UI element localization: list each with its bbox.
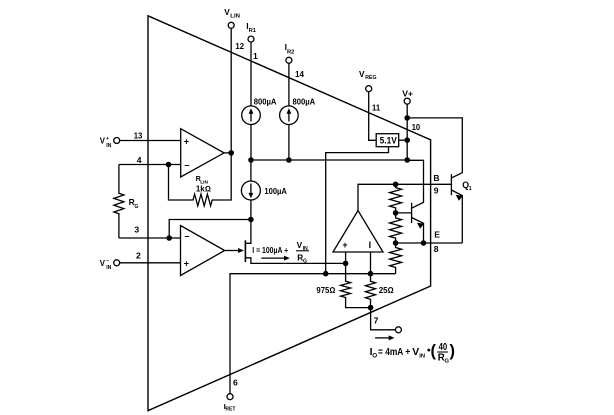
svg-text:8: 8 xyxy=(434,244,439,254)
svg-text:1: 1 xyxy=(253,51,258,61)
svg-text:2: 2 xyxy=(136,250,141,260)
svg-text:I = 100µA +: I = 100µA + xyxy=(252,245,288,255)
svg-text:(: ( xyxy=(431,342,437,360)
svg-text:+: + xyxy=(184,258,189,268)
svg-text:3: 3 xyxy=(134,225,139,235)
svg-text:7: 7 xyxy=(374,315,379,325)
svg-text:V+: V+ xyxy=(402,88,413,98)
svg-text:V: V xyxy=(100,259,106,268)
svg-text:I: I xyxy=(369,240,372,250)
svg-text:IR1: IR1 xyxy=(246,21,256,34)
svg-text:10: 10 xyxy=(412,122,421,132)
svg-text:G: G xyxy=(445,359,450,365)
svg-text:1: 1 xyxy=(469,186,472,192)
svg-text:800µA: 800µA xyxy=(293,97,316,107)
svg-text:5.1V: 5.1V xyxy=(380,136,397,146)
svg-text:= 4mA +: = 4mA + xyxy=(378,347,410,358)
svg-text:+: + xyxy=(184,136,189,146)
svg-text:1kΩ: 1kΩ xyxy=(196,184,211,193)
svg-text:V: V xyxy=(412,347,419,358)
svg-text:100µA: 100µA xyxy=(264,186,287,196)
svg-text:V: V xyxy=(359,70,365,79)
svg-text:9: 9 xyxy=(434,186,439,196)
svg-text:G: G xyxy=(303,259,307,265)
svg-text:4: 4 xyxy=(137,155,142,165)
svg-text:800µA: 800µA xyxy=(254,97,277,107)
svg-text:6: 6 xyxy=(233,378,238,388)
svg-text:+: + xyxy=(342,240,347,250)
svg-text:REG: REG xyxy=(365,75,376,81)
svg-text:40: 40 xyxy=(439,342,448,353)
svg-text:−: − xyxy=(106,258,109,264)
svg-text:IN: IN xyxy=(106,143,111,149)
svg-text:IN: IN xyxy=(106,265,111,271)
svg-text:RET: RET xyxy=(225,407,235,413)
svg-text:): ) xyxy=(450,342,455,360)
svg-text:25Ω: 25Ω xyxy=(379,285,395,295)
svg-text:−: − xyxy=(184,161,189,171)
svg-text:IN: IN xyxy=(419,354,425,360)
svg-text:V: V xyxy=(100,137,106,146)
svg-text:IN: IN xyxy=(303,246,308,252)
svg-text:11: 11 xyxy=(372,103,380,113)
svg-text:IR2: IR2 xyxy=(285,42,295,55)
svg-text:14: 14 xyxy=(295,69,304,79)
svg-text:975Ω: 975Ω xyxy=(316,285,335,295)
svg-text:G: G xyxy=(134,204,138,210)
svg-text:12: 12 xyxy=(235,41,244,51)
svg-text:−: − xyxy=(184,231,189,241)
svg-text:O: O xyxy=(372,353,377,360)
svg-text:+: + xyxy=(106,136,109,142)
svg-text:B: B xyxy=(433,173,439,183)
svg-text:13: 13 xyxy=(134,130,143,140)
svg-text:E: E xyxy=(434,230,440,240)
svg-text:LIN: LIN xyxy=(230,14,240,20)
